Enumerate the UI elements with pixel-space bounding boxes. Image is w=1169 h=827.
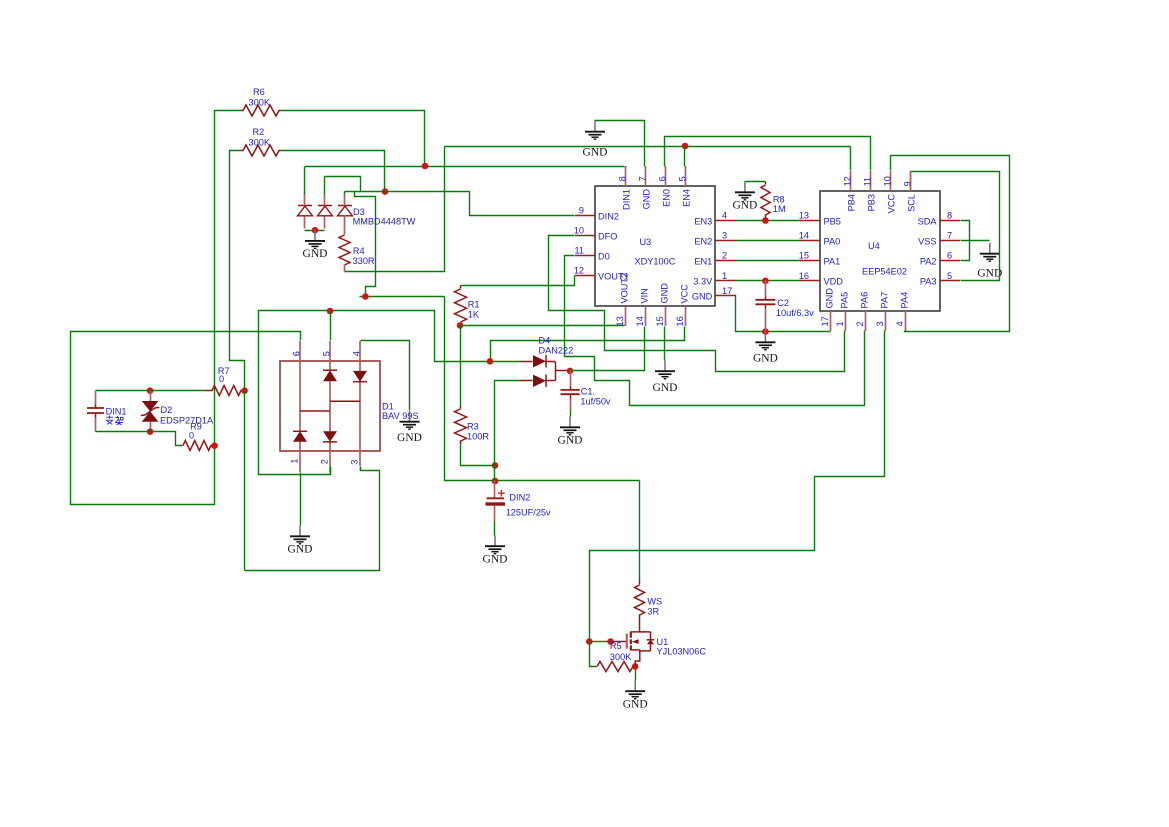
svg-text:11: 11 <box>862 177 872 187</box>
svg-text:PA0: PA0 <box>824 236 841 246</box>
wire y481 junction to DIN2 top <box>492 478 499 485</box>
svg-text:17: 17 <box>820 316 830 326</box>
svg-text:10: 10 <box>882 176 892 186</box>
wire gate link <box>590 641 611 643</box>
wire net B horizontal to DIN2 pin9 <box>345 192 575 216</box>
svg-text:D2: D2 <box>161 405 173 415</box>
svg-text:1uf/50v: 1uf/50v <box>580 396 611 406</box>
wire D3 d2 top jog <box>325 177 361 192</box>
svg-text:EDSP27D1A: EDSP27D1A <box>160 415 214 425</box>
svg-text:3R: 3R <box>647 607 659 617</box>
svg-text:12: 12 <box>574 266 584 276</box>
svg-text:300K: 300K <box>249 138 271 148</box>
resistor R6 <box>243 105 279 116</box>
svg-text:DIN1: DIN1 <box>622 189 632 210</box>
svg-text:PA7: PA7 <box>880 292 890 309</box>
svg-text:4: 4 <box>351 351 361 356</box>
svg-text:SDA: SDA <box>918 216 938 226</box>
wire R7 right riser/descender <box>244 391 246 571</box>
svg-text:VCC: VCC <box>680 284 690 304</box>
svg-text:R4: R4 <box>353 246 365 256</box>
svg-text:EN3: EN3 <box>694 216 712 226</box>
resistor R3 <box>455 409 467 441</box>
junction D3 gnd <box>312 227 319 234</box>
wire PB4 drop <box>850 147 852 171</box>
resistor R4 <box>344 216 346 235</box>
svg-text:300K: 300K <box>249 98 271 108</box>
svg-text:7: 7 <box>947 231 952 241</box>
junction D2 bottom <box>147 428 154 435</box>
svg-text:12: 12 <box>842 176 852 186</box>
svg-text:3.3V: 3.3V <box>693 277 713 287</box>
svg-text:100R: 100R <box>467 432 489 442</box>
junction R2 node B <box>382 188 389 195</box>
wire SCL to PA3 loop <box>911 172 1000 281</box>
resistor R5 300K <box>597 662 633 672</box>
junction R1 bottom <box>457 322 464 329</box>
svg-text:3: 3 <box>722 231 727 241</box>
svg-text:EN1: EN1 <box>694 256 712 266</box>
wire R4 bottom to x445 upper vertical <box>345 147 445 272</box>
svg-text:D0: D0 <box>598 251 610 261</box>
svg-text:VIN: VIN <box>640 288 650 303</box>
wire EN4 drop <box>684 147 686 167</box>
svg-text:PA4: PA4 <box>900 292 910 309</box>
ground C1 <box>558 417 583 447</box>
resistor R8 1M <box>765 182 767 185</box>
wire D3 bottom pair to GND <box>305 230 325 232</box>
svg-text:VCC: VCC <box>887 194 897 214</box>
wire R6 right to node y166 <box>281 111 425 167</box>
ground U3 pin15 <box>653 361 678 395</box>
wire R2 right to net B <box>281 151 385 192</box>
wire DIN1 bottom to R9 <box>96 432 181 446</box>
wire D3 d2 drop <box>324 177 326 195</box>
wire D4 anode2 riser <box>495 381 521 481</box>
svg-text:EEP54E02: EEP54E02 <box>862 267 907 277</box>
svg-text:U3: U3 <box>640 237 652 247</box>
resistor R7 0ohm <box>212 386 241 396</box>
wire D3 d1 top drop <box>304 167 306 197</box>
wire R1 bottom to U3 pin13 <box>461 325 625 327</box>
svg-text:GND: GND <box>288 544 313 556</box>
svg-text:GND: GND <box>397 432 422 444</box>
svg-text:1: 1 <box>290 458 300 463</box>
junction R5/source node <box>632 663 639 670</box>
svg-text:3: 3 <box>875 321 885 326</box>
wire top GND to U3 pin7 <box>595 121 645 167</box>
junction C2 top <box>762 278 769 285</box>
svg-text:6: 6 <box>657 176 667 181</box>
junction D1 pin5 node <box>327 308 334 315</box>
svg-text:PA2: PA2 <box>920 256 937 266</box>
svg-text:GND: GND <box>660 283 670 304</box>
svg-text:GND: GND <box>623 699 648 711</box>
svg-text:PB4: PB4 <box>847 194 857 211</box>
wire R2 left down to R7 <box>230 151 245 391</box>
svg-text:5: 5 <box>947 271 952 281</box>
svg-text:GND: GND <box>732 200 757 212</box>
svg-text:BAV 99S: BAV 99S <box>382 411 419 421</box>
wire D3 d3 drop <box>344 192 346 197</box>
resistor WS 3R <box>639 581 641 585</box>
svg-text:14: 14 <box>635 316 645 326</box>
wire net 3.3V-VDD <box>735 280 801 282</box>
junction D2 top <box>147 387 154 394</box>
svg-text:7: 7 <box>637 176 647 181</box>
capacitor DIN2 125UF/25v polarized <box>494 481 496 498</box>
ground U1 source <box>623 681 648 711</box>
svg-text:5: 5 <box>677 176 687 181</box>
svg-text:17: 17 <box>722 286 732 296</box>
svg-text:R2: R2 <box>253 127 265 137</box>
svg-text:DIN2: DIN2 <box>509 493 530 503</box>
resistor R9 0ohm <box>183 441 211 451</box>
U4 pins <box>831 171 911 331</box>
svg-text:1K: 1K <box>468 310 480 320</box>
svg-text:8: 8 <box>617 176 627 181</box>
capacitor C1 1uf/50v <box>570 371 572 387</box>
junction EN4 node <box>682 143 689 150</box>
wire net B branch to DIN2 cap via staircase <box>355 192 376 297</box>
ground D1 pin1 <box>288 526 313 556</box>
junction C2 bottom <box>762 328 769 335</box>
svg-text:16: 16 <box>675 316 685 326</box>
junction gate node left <box>586 638 593 645</box>
svg-text:D4: D4 <box>539 336 551 346</box>
ground C2 bottom <box>753 332 778 365</box>
wire net DIN1-pin8 y166 <box>305 166 625 168</box>
junction R6/DIN1 node <box>422 163 429 170</box>
svg-text:GND: GND <box>483 554 508 566</box>
svg-text:PA6: PA6 <box>860 292 870 309</box>
svg-text:1M: 1M <box>773 204 786 214</box>
junction VCC/D4 anode1 <box>487 358 494 365</box>
diode D3 triple MMBD4448TW <box>304 216 306 229</box>
U3 pins <box>626 166 686 326</box>
svg-text:DFO: DFO <box>598 231 617 241</box>
svg-text:R8: R8 <box>773 194 785 204</box>
junction R3/D4 node <box>492 462 499 469</box>
svg-text:15: 15 <box>799 251 809 261</box>
ground D1 pin4 <box>397 411 422 444</box>
svg-text:2: 2 <box>855 321 865 326</box>
svg-text:SCL: SCL <box>907 194 917 212</box>
wire net EN1-PA1 <box>735 260 801 262</box>
wire D1 pin1 to ground <box>300 473 302 526</box>
junction R9 right on left loop <box>211 442 218 449</box>
svg-text:0: 0 <box>189 431 194 441</box>
svg-text:GND: GND <box>303 248 328 260</box>
wire net EN3-PB5 <box>735 220 801 222</box>
svg-text:16: 16 <box>799 271 809 281</box>
svg-text:2: 2 <box>722 251 727 261</box>
wire D1 pin3 bottom loop <box>245 467 380 571</box>
svg-text:MMBD4448TW: MMBD4448TW <box>353 217 416 227</box>
wire x445 lower vertical to y481 <box>445 297 640 481</box>
svg-text:15: 15 <box>655 316 665 326</box>
svg-text:2: 2 <box>320 459 330 464</box>
svg-text:300K: 300K <box>610 652 632 662</box>
svg-text:GND: GND <box>653 382 678 394</box>
wire D4 anode1 lead <box>491 361 521 363</box>
ground VSS <box>977 243 1002 280</box>
svg-text:D3: D3 <box>353 207 365 217</box>
svg-text:PA3: PA3 <box>920 277 937 287</box>
ground DIN2 <box>483 536 508 566</box>
svg-text:4: 4 <box>722 211 727 221</box>
wire source to ground <box>635 667 637 681</box>
wire R5 leg <box>590 642 595 667</box>
svg-text:10uf/6.3v: 10uf/6.3v <box>776 308 814 318</box>
svg-text:VSS: VSS <box>918 236 936 246</box>
svg-text:R1: R1 <box>468 300 480 310</box>
svg-text:4: 4 <box>895 321 905 326</box>
svg-text:U1: U1 <box>657 637 669 647</box>
wire VOUT2 to R1 top <box>461 276 575 286</box>
svg-text:DIN2: DIN2 <box>598 211 619 221</box>
wire PA7 net to U1 gate <box>590 331 885 642</box>
svg-text:C1.: C1. <box>581 387 595 397</box>
svg-text:DIN1: DIN1 <box>106 407 127 417</box>
svg-text:6: 6 <box>291 351 301 356</box>
wire DIN1 top <box>96 390 151 392</box>
svg-text:GND: GND <box>977 268 1002 280</box>
svg-text:GND: GND <box>825 288 835 309</box>
svg-text:GND: GND <box>692 292 713 302</box>
svg-text:VOUT1: VOUT1 <box>598 272 629 282</box>
wire WS drop <box>639 481 641 581</box>
op-amp U4 EEP54E02 body <box>820 191 940 311</box>
svg-text:PA5: PA5 <box>840 292 850 309</box>
label DIN1 zhijia hand-drawn CJK <box>106 416 123 425</box>
svg-text:XDY100C: XDY100C <box>635 257 676 267</box>
svg-text:13: 13 <box>615 316 625 326</box>
wire node y296 to x445 vertical <box>360 296 445 298</box>
resistor R1 <box>460 286 462 289</box>
svg-text:YJL03N06C: YJL03N06C <box>657 647 707 657</box>
ground D3 <box>303 230 328 260</box>
svg-text:1: 1 <box>835 321 845 326</box>
wire U3 VCC net to D1 pins 2/5 and D4 anode1 <box>491 327 685 362</box>
svg-text:330R: 330R <box>353 256 375 266</box>
wire R6 left loop to D1 pin6 <box>71 111 301 505</box>
svg-text:125UF/25v: 125UF/25v <box>506 508 551 518</box>
capacitor C2 10uf/6.3v <box>765 281 767 297</box>
wire R8 top to ground <box>745 181 766 183</box>
diode D4 DAN222 dual <box>521 361 533 363</box>
svg-text:PB3: PB3 <box>867 194 877 211</box>
wire VCC(U4) to PA4 loop <box>891 156 1010 332</box>
svg-text:GND: GND <box>558 435 583 447</box>
svg-text:3: 3 <box>350 460 360 465</box>
svg-text:6: 6 <box>947 251 952 261</box>
wire net EN2-PA0 <box>735 240 801 242</box>
diode bridge D1 BAV 99S <box>280 361 380 451</box>
wire D1 pin5 drop <box>330 311 332 341</box>
svg-text:8: 8 <box>947 211 952 221</box>
junction R7 right <box>241 387 248 394</box>
capacitor DIN1 <box>95 391 97 405</box>
svg-text:PA1: PA1 <box>824 256 841 266</box>
svg-text:VDD: VDD <box>824 277 844 287</box>
svg-text:D1: D1 <box>382 402 394 412</box>
svg-text:9: 9 <box>579 206 584 216</box>
wire SDA to PA2 <box>961 221 970 261</box>
op-amp U3 XDY100C body <box>595 186 715 306</box>
svg-text:13: 13 <box>799 211 809 221</box>
junction R8 bottom <box>762 217 769 224</box>
transistor U1 YJL03N06C <box>611 632 655 667</box>
svg-text:U4: U4 <box>868 241 880 251</box>
svg-text:WS: WS <box>647 597 662 607</box>
svg-text:R3: R3 <box>467 422 479 432</box>
svg-text:DAN222: DAN222 <box>539 346 574 356</box>
svg-text:EN2: EN2 <box>694 236 712 246</box>
svg-text:1: 1 <box>722 271 727 281</box>
ground R8 <box>732 182 757 212</box>
svg-text:9: 9 <box>902 181 912 186</box>
wire U3 pin17 GND net to C2/U4 pin17 <box>735 296 831 332</box>
junction gate node right <box>607 638 614 645</box>
junction D4 output / C1 / VIN <box>567 368 574 375</box>
wire VIN net <box>571 327 645 371</box>
wire D0 net to PA6 <box>565 256 865 406</box>
wire U3 pin15 to ground <box>664 327 666 361</box>
wire D1 pin2 stub join <box>330 467 332 475</box>
wire DFO net to PA5 <box>549 236 845 372</box>
svg-text:10: 10 <box>574 226 584 236</box>
ground top <box>583 121 608 159</box>
svg-text:PB5: PB5 <box>824 216 841 226</box>
svg-text:5: 5 <box>321 351 331 356</box>
svg-text:GND: GND <box>642 189 652 210</box>
svg-text:0: 0 <box>219 374 224 384</box>
wire D1 pin4 to ground <box>361 341 410 411</box>
svg-text:EN0: EN0 <box>662 189 672 207</box>
wire R3 bottom to DIN2 node <box>461 445 495 466</box>
junction staircase node <box>362 293 369 300</box>
diode D2 EDSP27D1A bidirectional TVS <box>150 391 152 402</box>
wire R1 to R3 <box>460 326 462 407</box>
svg-text:GND: GND <box>753 353 778 365</box>
wire net EN0-PB3 y136 <box>665 137 871 171</box>
svg-text:R5: R5 <box>610 641 622 651</box>
svg-text:R6: R6 <box>253 87 265 97</box>
svg-text:GND: GND <box>583 147 608 159</box>
resistor R2 <box>243 145 279 156</box>
wire D1 pin3 stub join <box>360 467 362 471</box>
svg-text:EN4: EN4 <box>682 189 692 207</box>
svg-text:14: 14 <box>799 231 809 241</box>
svg-text:C2: C2 <box>777 298 789 308</box>
wire net PB4/EN4 y146 <box>445 146 851 148</box>
wire VSS to ground <box>961 240 990 242</box>
wire D2 top to R7 <box>151 390 206 392</box>
svg-text:11: 11 <box>574 246 584 256</box>
